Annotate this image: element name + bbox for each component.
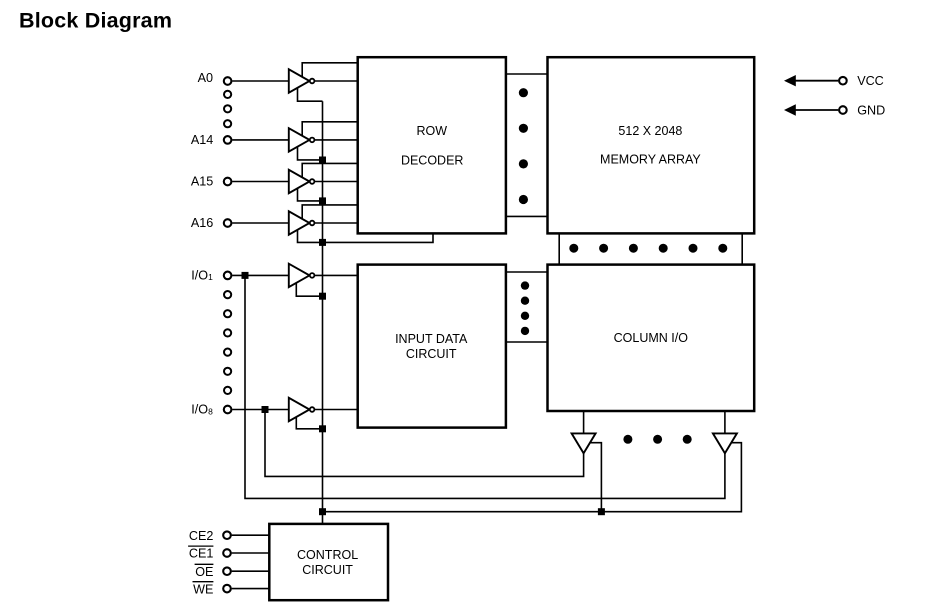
svg-text:A16: A16 bbox=[191, 216, 213, 230]
wire CE2 bbox=[232, 534, 270, 536]
svg-text:ROW: ROW bbox=[417, 124, 448, 138]
band dot 3 bbox=[629, 244, 638, 253]
wire I/O8 input bbox=[232, 409, 289, 411]
band dot 1 bbox=[569, 244, 578, 253]
GND pin bbox=[839, 106, 847, 114]
wire output enable horizontal bbox=[323, 443, 742, 512]
channel dot 2 bbox=[519, 124, 528, 133]
svg-text:A14: A14 bbox=[191, 133, 213, 147]
GND arrow bbox=[784, 104, 796, 115]
svg-text:GND: GND bbox=[857, 104, 885, 118]
wire WE bbox=[232, 588, 270, 590]
band dot 6 bbox=[718, 244, 727, 253]
channel dot 6 bbox=[521, 297, 529, 305]
svg-text:A15: A15 bbox=[191, 175, 213, 189]
wire A0 output bbox=[310, 80, 358, 82]
svg-text:VCC: VCC bbox=[857, 74, 884, 88]
wire A16 complement tap bbox=[302, 205, 358, 223]
output dots row dot 2 bbox=[653, 435, 662, 444]
buffer I/O8 bbox=[289, 398, 310, 421]
wire A0 input bbox=[232, 80, 289, 82]
expansion dot circle 8 bbox=[224, 368, 231, 375]
junction I/O1 input node bbox=[242, 272, 249, 279]
wire column I/O to left output buffer bbox=[583, 411, 585, 433]
svg-text:CONTROL: CONTROL bbox=[297, 548, 358, 562]
junction I/O8 input node bbox=[262, 406, 269, 413]
pin WE bbox=[223, 585, 231, 593]
svg-text:I/O1: I/O1 bbox=[191, 269, 213, 283]
pin A14 bbox=[224, 136, 232, 144]
junction on bus at A14 tap bbox=[319, 157, 326, 164]
buffer A0 bbox=[289, 69, 310, 92]
expansion dot circle 5 bbox=[224, 310, 231, 317]
wire I/O1 output bbox=[310, 274, 358, 276]
channel dot 3 bbox=[519, 159, 528, 168]
pin CE2 bbox=[223, 531, 231, 539]
channel dot 7 bbox=[521, 312, 529, 320]
wire A14 enable tap to bus bbox=[298, 140, 323, 160]
wire A15 enable tap to bus bbox=[298, 182, 323, 201]
buffer A14 bbox=[289, 128, 310, 151]
VCC arrow bbox=[784, 75, 796, 86]
wire A16 enable tap to row decoder bottom bbox=[298, 223, 434, 242]
svg-text:OE: OE bbox=[195, 565, 213, 579]
junction on bus at A16 tap bbox=[319, 239, 326, 246]
wire I/O8 enable tap to bus bbox=[296, 410, 322, 429]
svg-text:MEMORY ARRAY: MEMORY ARRAY bbox=[600, 153, 701, 167]
buffer A15 bbox=[289, 170, 310, 193]
output buffer right bbox=[713, 433, 737, 453]
junction on bus at output enable line bbox=[319, 508, 326, 515]
junction on bus at A15 tap bbox=[319, 197, 326, 204]
channel between row decoder and memory array bbox=[506, 73, 548, 75]
block CONTROL CIRCUIT bbox=[269, 524, 388, 600]
pin I/O1 bbox=[224, 272, 232, 280]
wire A15 complement tap bbox=[302, 163, 358, 181]
svg-text:CIRCUIT: CIRCUIT bbox=[406, 347, 457, 361]
channel dot 4 bbox=[519, 195, 528, 204]
svg-text:I/O8: I/O8 bbox=[191, 403, 213, 417]
wire I/O1 enable tap to bus bbox=[296, 275, 322, 296]
svg-text:A0: A0 bbox=[198, 71, 213, 85]
band dot 5 bbox=[689, 244, 698, 253]
block COLUMN I/O bbox=[548, 265, 755, 411]
band dot 4 bbox=[659, 244, 668, 253]
expansion dot circle 1 bbox=[224, 91, 231, 98]
expansion dot circle 7 bbox=[224, 349, 231, 356]
svg-text:Block Diagram: Block Diagram bbox=[19, 9, 172, 33]
wire column I/O to right output buffer bbox=[724, 411, 726, 433]
expansion dot circle 6 bbox=[224, 329, 231, 336]
wire OE bbox=[232, 570, 270, 572]
svg-text:512 X 2048: 512 X 2048 bbox=[618, 124, 682, 138]
wire left output buffer enable bbox=[590, 443, 602, 512]
band between memory array and column I/O bbox=[558, 233, 560, 264]
wire A14 input bbox=[232, 139, 289, 141]
wire A15 output bbox=[310, 181, 358, 183]
channel dot 8 bbox=[521, 327, 529, 335]
expansion dot circle 2 bbox=[224, 105, 231, 112]
pin A16 bbox=[224, 219, 232, 227]
svg-text:COLUMN I/O: COLUMN I/O bbox=[614, 331, 689, 345]
expansion dot circle 9 bbox=[224, 387, 231, 394]
band dot 2 bbox=[599, 244, 608, 253]
wire I/O8 output bbox=[310, 409, 358, 411]
wire A16 input bbox=[232, 222, 289, 224]
buffer I/O1 bbox=[289, 264, 310, 287]
buffer A16 bbox=[289, 211, 310, 234]
expansion dot circle 3 bbox=[224, 120, 231, 127]
block INPUT DATA CIRCUIT bbox=[358, 265, 506, 428]
wire A0 complement tap bbox=[302, 63, 358, 81]
channel dot 5 bbox=[521, 281, 529, 289]
wire A15 input bbox=[232, 181, 289, 183]
svg-text:CE1: CE1 bbox=[189, 547, 214, 561]
block MEMORY ARRAY 512 X 2048 bbox=[548, 57, 755, 233]
svg-text:INPUT DATA: INPUT DATA bbox=[395, 332, 468, 346]
wire control bus vertical bbox=[322, 101, 324, 524]
junction on bus at I/O1 tap bbox=[319, 293, 326, 300]
wire CE1 bbox=[232, 552, 270, 554]
output dots row dot 1 bbox=[623, 435, 632, 444]
block ROW DECODER bbox=[358, 57, 506, 233]
wire I/O1 line to right output buffer bbox=[245, 275, 725, 498]
wire I/O8 line to left output buffer bbox=[265, 410, 584, 477]
junction left output buffer enable bbox=[598, 508, 605, 515]
wire I/O1 input bbox=[232, 274, 289, 276]
junction on bus at I/O8 tap bbox=[319, 425, 326, 432]
svg-text:DECODER: DECODER bbox=[401, 153, 464, 167]
wire A16 output bbox=[310, 222, 358, 224]
channel between input data circuit and column I/O bbox=[506, 271, 548, 273]
channel dot 1 bbox=[519, 88, 528, 97]
wire A14 output bbox=[310, 139, 358, 141]
pin A0 bbox=[224, 77, 232, 85]
svg-text:CIRCUIT: CIRCUIT bbox=[302, 563, 353, 577]
expansion dot circle 4 bbox=[224, 291, 231, 298]
output dots row dot 3 bbox=[683, 435, 692, 444]
output buffer left bbox=[572, 433, 596, 453]
pin A15 bbox=[224, 178, 232, 186]
VCC pin bbox=[839, 77, 847, 85]
pin CE1 bbox=[223, 549, 231, 557]
svg-text:CE2: CE2 bbox=[189, 529, 214, 543]
svg-text:WE: WE bbox=[193, 582, 213, 596]
pin OE bbox=[223, 567, 231, 575]
pin I/O8 bbox=[224, 406, 232, 414]
wire A14 complement tap bbox=[302, 122, 358, 140]
wire A0 enable tap to bus bbox=[298, 81, 323, 101]
